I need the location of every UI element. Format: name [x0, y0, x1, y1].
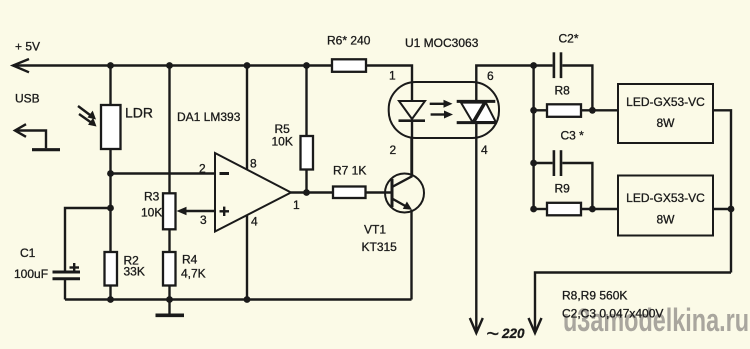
wire C3 left	[534, 162, 553, 164]
wire R5 top	[305, 66, 307, 137]
svg-text:VT1: VT1	[364, 223, 386, 237]
svg-text:2: 2	[199, 162, 206, 176]
triac up triangle	[475, 103, 496, 122]
resistor LDR	[101, 105, 121, 149]
svg-text:USB: USB	[15, 92, 40, 106]
ground main	[156, 300, 185, 316]
wire pin4	[246, 215, 248, 300]
svg-text:220: 220	[501, 326, 525, 341]
node +5V arrow	[13, 59, 29, 72]
wire left column R8-R9	[532, 66, 534, 210]
opto arrow 1	[430, 100, 453, 108]
light arrow 2	[79, 114, 97, 127]
optocoupler U1 body	[389, 82, 499, 138]
resistor R9	[547, 203, 581, 216]
op-amp U1 LM393	[215, 153, 291, 232]
wire opto pin6 up	[476, 66, 533, 102]
node junction rail R4	[166, 296, 173, 303]
wire op-amp pin2	[111, 172, 216, 174]
node junction R5 top	[303, 62, 310, 69]
svg-text:R6* 240: R6* 240	[327, 34, 371, 48]
wire R5 bottom	[305, 170, 307, 193]
svg-text:4: 4	[251, 215, 258, 229]
node junction pin8 top	[244, 62, 251, 69]
svg-text:R4: R4	[182, 253, 198, 267]
svg-text:R3: R3	[144, 190, 160, 204]
svg-text:1: 1	[389, 69, 396, 83]
transistor VT1 base bar	[391, 179, 394, 207]
transistor VT1 emitter	[392, 199, 412, 300]
potentiometer R3	[163, 193, 176, 229]
capacitor C2	[554, 52, 561, 78]
wire LDR bottom column	[109, 149, 111, 252]
lamp module 2 box	[618, 176, 713, 236]
wire R7 to base	[366, 191, 393, 193]
wire opto pin2 to collector	[411, 121, 413, 177]
node USB arrow	[15, 124, 46, 148]
wire R6 to pin1	[366, 66, 412, 102]
resistor R2	[105, 252, 118, 286]
label C1 plus sign	[70, 263, 80, 272]
node junction R9 left	[530, 206, 537, 213]
svg-text:3: 3	[200, 213, 207, 227]
resistor R7	[333, 187, 366, 199]
wire C2 right	[562, 66, 592, 111]
transistor VT1 collector	[392, 138, 412, 187]
wire R8 left	[534, 109, 547, 111]
svg-text:C2,C3 0,047x400V: C2,C3 0,047x400V	[562, 307, 663, 321]
resistor R5	[301, 136, 314, 170]
svg-text:8W: 8W	[657, 116, 676, 130]
svg-text:~: ~	[486, 321, 499, 346]
node junction R9 right	[589, 206, 596, 213]
wire pin8	[246, 66, 248, 170]
node junction output	[303, 189, 310, 196]
lamp module 1 box	[618, 84, 713, 143]
svg-text:4: 4	[481, 143, 488, 157]
wire op-amp output	[291, 191, 333, 193]
node junction rail pin4	[244, 296, 251, 303]
node junction R8 right	[589, 107, 596, 114]
resistor R8	[547, 104, 581, 117]
potentiometer R3 wiper arrow	[177, 207, 216, 215]
transistor VT1	[385, 174, 424, 213]
svg-text:100uF: 100uF	[14, 267, 48, 281]
svg-text:10K: 10K	[272, 135, 293, 149]
light arrow 1	[78, 106, 96, 120]
svg-text:C2*: C2*	[559, 32, 579, 46]
wire top rail left	[13, 64, 332, 66]
resistor R6	[332, 59, 366, 72]
wire lamp2 right	[713, 208, 731, 210]
wire opto pin4 down	[475, 123, 477, 333]
wire R3 column top	[168, 66, 170, 194]
node junction rail R2	[107, 296, 114, 303]
svg-text:33K: 33K	[124, 265, 145, 279]
capacitor C3	[554, 150, 561, 176]
svg-text:R9: R9	[555, 182, 571, 196]
svg-text:2: 2	[390, 143, 397, 157]
svg-text:C3 *: C3 *	[561, 129, 585, 143]
svg-text:LED-GX53-VC: LED-GX53-VC	[626, 95, 705, 109]
wire R9 left	[534, 208, 547, 210]
capacitor C1	[53, 272, 81, 279]
triac bottom bar	[457, 121, 496, 124]
wire C1 bottom	[64, 280, 66, 300]
svg-text:6: 6	[487, 69, 494, 83]
svg-text:8W: 8W	[657, 213, 676, 227]
op-amp plus sign	[220, 207, 230, 216]
wire C3 right	[562, 163, 592, 209]
svg-text:LDR: LDR	[125, 105, 153, 121]
svg-text:R8: R8	[555, 84, 571, 98]
wire to C1	[65, 208, 111, 271]
wire LDR top	[109, 66, 111, 106]
resistor R4	[163, 252, 176, 286]
node junction C1	[107, 205, 114, 212]
op-amp minus sign	[220, 172, 230, 175]
wire lamp1 right	[713, 110, 731, 272]
node junction C3 left	[530, 160, 537, 167]
svg-text:C1: C1	[20, 246, 36, 260]
svg-text:10K: 10K	[141, 206, 162, 220]
LED diode in opto	[399, 101, 426, 121]
svg-text:1: 1	[293, 198, 300, 212]
svg-text:R8,R9 560K: R8,R9 560K	[562, 289, 627, 303]
node arrow 220 right	[529, 318, 542, 333]
wire C2 left	[534, 64, 553, 66]
wire return to mains	[535, 273, 731, 333]
svg-text:4,7K: 4,7K	[181, 267, 206, 281]
wire bottom rail	[65, 298, 412, 300]
triac top bar	[457, 100, 496, 103]
node junction R3 top	[166, 62, 173, 69]
svg-text:U1 MOC3063: U1 MOC3063	[405, 36, 479, 50]
opto arrow 2	[431, 111, 453, 119]
node junction LDR/+5V	[107, 62, 114, 69]
node junction lamp2 right	[728, 206, 735, 213]
svg-text:DA1 LM393: DA1 LM393	[177, 110, 241, 124]
wire R4 bottom	[168, 286, 170, 300]
wire R9 right	[581, 208, 618, 210]
svg-text:R7 1K: R7 1K	[333, 164, 366, 178]
svg-text:8: 8	[250, 157, 257, 171]
wire R3-R4	[168, 229, 170, 252]
svg-text:KT315: KT315	[362, 240, 398, 254]
ground USB	[32, 148, 60, 151]
triac down triangle	[461, 103, 484, 122]
node junction C2 left	[530, 62, 537, 69]
svg-text:+ 5V: + 5V	[15, 40, 40, 54]
svg-text:LED-GX53-VC: LED-GX53-VC	[626, 191, 705, 205]
node junction pin2	[107, 170, 114, 177]
wire R2 bottom	[109, 286, 111, 300]
wire R8 right	[581, 109, 618, 111]
node arrow 220 left	[470, 318, 483, 333]
node junction R8 left	[530, 107, 537, 114]
